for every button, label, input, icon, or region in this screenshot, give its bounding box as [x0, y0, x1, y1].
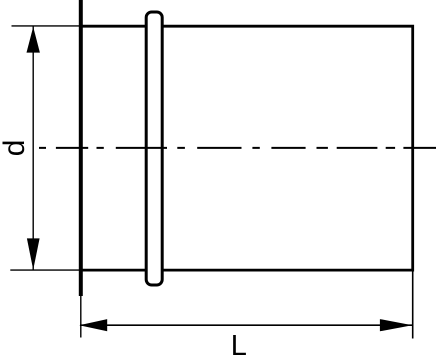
extension line top (d) [12, 25, 81, 27]
dimension line L (horizontal) [80, 324, 413, 326]
arrowhead d top [27, 27, 40, 53]
wall line (thick vertical) [79, 0, 83, 296]
extension line right (L) [412, 270, 414, 338]
svg-text:d: d [0, 140, 31, 157]
bead ring (capsule) [146, 12, 162, 285]
svg-text:L: L [231, 330, 247, 356]
arrowhead d bottom [27, 238, 40, 269]
centerline (dash-dot axis) [39, 147, 436, 149]
extension line left (L) [80, 296, 82, 338]
pipe body outline [81, 26, 413, 270]
arrowhead L left [79, 319, 107, 331]
arrowhead L right [380, 319, 412, 331]
extension line bottom (d) [10, 269, 81, 271]
dimension line d (vertical) [32, 27, 34, 271]
